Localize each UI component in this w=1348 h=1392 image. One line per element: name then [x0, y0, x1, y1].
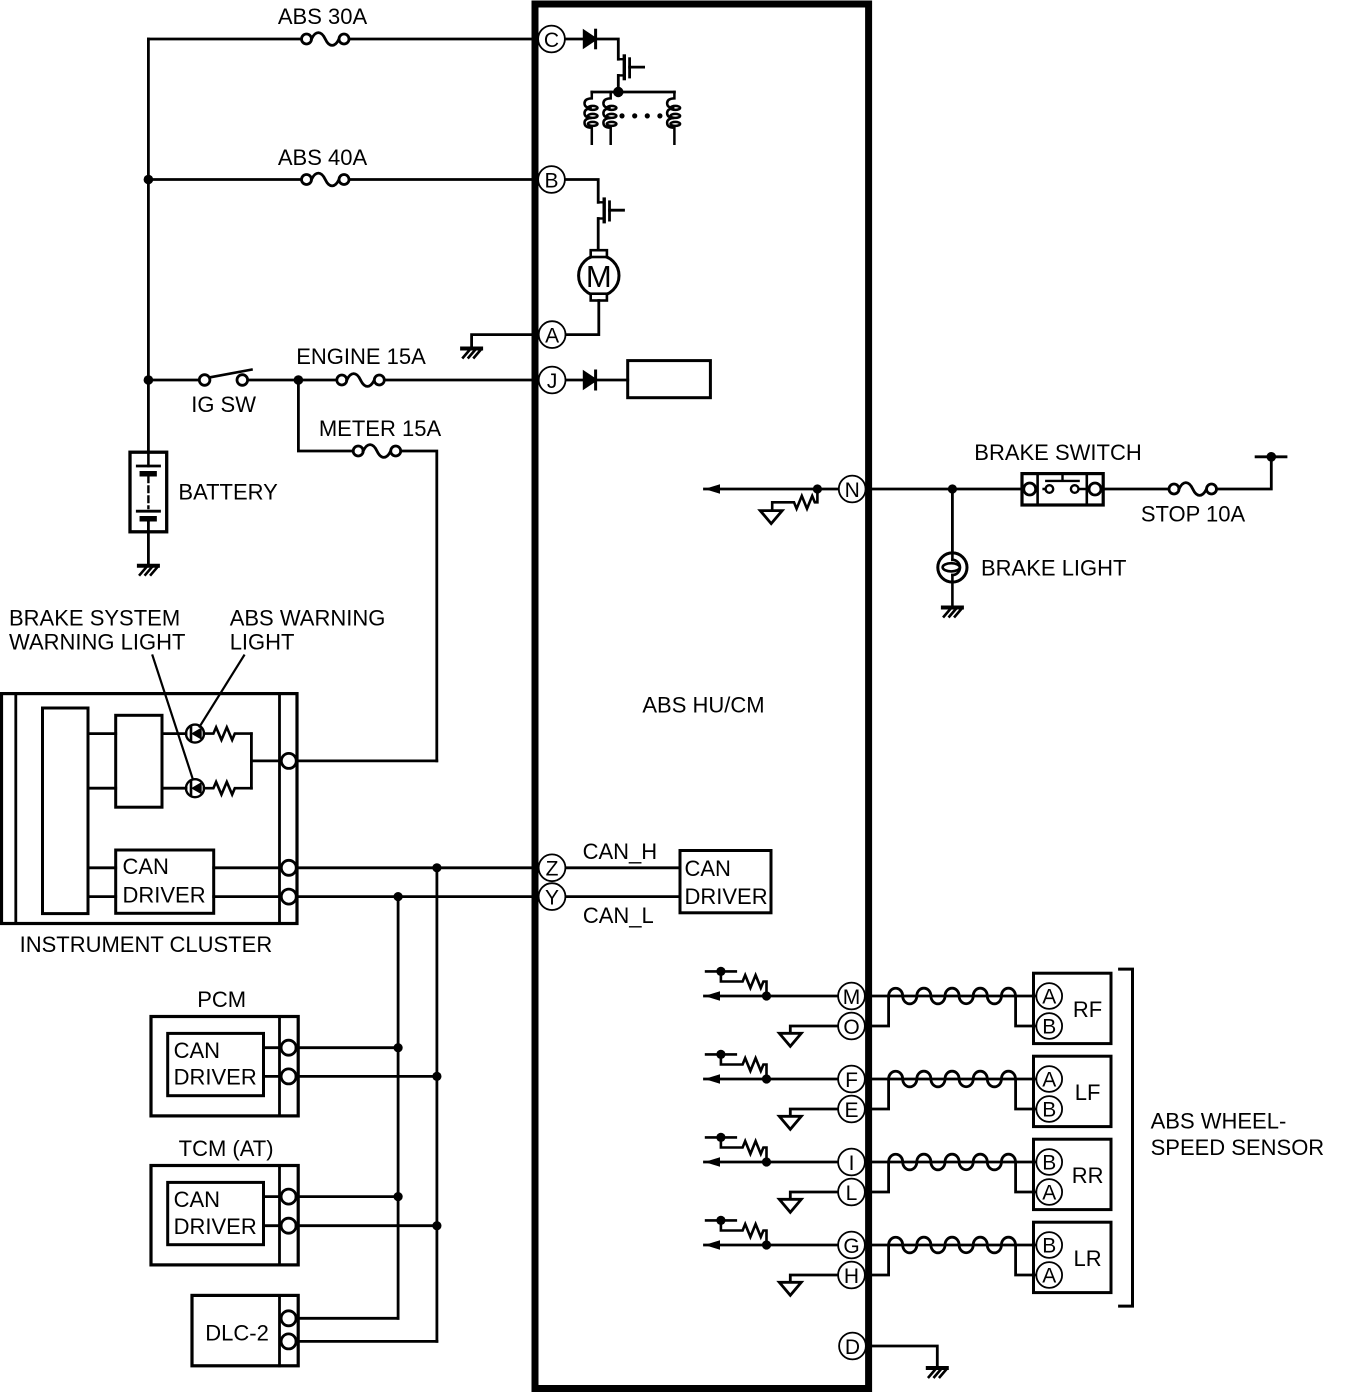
- terminal O: [838, 1013, 865, 1040]
- wire N to brake switch: [866, 488, 1024, 491]
- fuse ABS 40A: [302, 173, 350, 186]
- svg-text:BRAKE SWITCH: BRAKE SWITCH: [974, 440, 1141, 465]
- twisted pair loops F/E: [889, 1071, 1016, 1087]
- wire N row: [705, 488, 840, 491]
- fuse ENGINE 15A: [337, 374, 385, 387]
- wire lamp driver to LEDs: [162, 734, 186, 789]
- node junction pull-up M: [762, 991, 771, 1000]
- terminal N: [839, 476, 866, 503]
- module DLC-2: [192, 1295, 298, 1365]
- svg-text:Z: Z: [546, 858, 559, 881]
- regulator box (unlabeled): [628, 361, 711, 398]
- wire B to pump FET: [565, 180, 598, 203]
- wire sensor signal row I: [705, 1161, 838, 1164]
- pin A of LF: [1036, 1066, 1062, 1092]
- arrow signal continuation (G): [705, 1240, 721, 1249]
- node junction PCM CAN_H: [432, 1072, 441, 1081]
- connector pins PCM: [281, 1040, 296, 1055]
- inductor solenoid coil 3: [667, 92, 680, 144]
- svg-text:B: B: [1042, 1099, 1056, 1122]
- cluster lamp driver block: [116, 715, 162, 807]
- wire CAN_L bus vertical: [397, 897, 400, 1319]
- pin B of RF: [1036, 1013, 1062, 1039]
- svg-text:B: B: [544, 169, 558, 192]
- node junction brake light tap: [948, 484, 957, 493]
- switch IG SW: [199, 370, 251, 386]
- diode (C feed): [584, 30, 595, 48]
- wire brake switch to fuse: [1103, 488, 1169, 491]
- brake switch BRAKE SWITCH: [1022, 474, 1103, 505]
- wire sensor return row H: [790, 1275, 837, 1282]
- svg-text:CAN_L: CAN_L: [583, 903, 654, 928]
- terminal M: [838, 983, 865, 1010]
- connector pins TCM: [281, 1189, 296, 1204]
- wire Z to CAN driver: [566, 866, 681, 869]
- node junction PCM CAN_L: [394, 1043, 403, 1052]
- ellipsis dots (more solenoids): [619, 113, 662, 118]
- svg-text:A: A: [1042, 1182, 1056, 1205]
- svg-text:DLC-2: DLC-2: [205, 1320, 269, 1345]
- PCM CAN DRIVER block: [168, 1033, 264, 1095]
- wire TCM to CAN bus: [296, 1197, 437, 1226]
- wire J to diode: [566, 379, 582, 382]
- arrow signal continuation (N): [705, 484, 721, 493]
- svg-text:ENGINE 15A: ENGINE 15A: [296, 344, 426, 369]
- twisted pair loops I/L: [889, 1154, 1016, 1170]
- fuse STOP 10A: [1169, 483, 1217, 496]
- sensor box LR: [1034, 1222, 1112, 1292]
- node junction CAN_H bus: [432, 863, 441, 872]
- terminal B: [538, 166, 565, 193]
- resistor pull-up I: [706, 1137, 766, 1162]
- arrow signal continuation (F): [705, 1074, 721, 1083]
- terminal E: [838, 1096, 865, 1123]
- wire ABS 30A row: [148, 38, 538, 41]
- svg-text:A: A: [1042, 986, 1056, 1009]
- wire IG SW row: [148, 379, 538, 382]
- ground (floating triangle) H: [779, 1282, 801, 1295]
- ground (floating triangle) L: [779, 1199, 801, 1212]
- wire stop fuse to B+ stub: [1217, 457, 1272, 489]
- wire CAN_H bus vertical: [435, 868, 438, 1342]
- ABS HU/CM control module box: [535, 4, 869, 1389]
- lamp brake system warning LED: [186, 779, 204, 797]
- svg-text:G: G: [843, 1235, 859, 1258]
- svg-text:B: B: [1042, 1235, 1056, 1258]
- wire D ground lead: [866, 1346, 937, 1366]
- sensor box LF: [1034, 1056, 1112, 1126]
- svg-text:LF: LF: [1075, 1080, 1101, 1105]
- node solenoid common junction: [613, 87, 623, 97]
- svg-text:C: C: [544, 29, 559, 52]
- svg-text:ABS WHEEL-: ABS WHEEL-: [1151, 1108, 1287, 1133]
- ground (floating triangle) at N: [760, 511, 782, 524]
- terminal I: [838, 1149, 865, 1176]
- pin B of LF: [1036, 1096, 1062, 1122]
- node junction ABS40A tap: [144, 175, 154, 185]
- svg-text:RF: RF: [1073, 997, 1102, 1022]
- svg-text:CAN: CAN: [174, 1038, 220, 1063]
- svg-text:ABS WARNING: ABS WARNING: [230, 605, 386, 630]
- wire CAN_L (Y): [296, 895, 538, 898]
- terminal Z: [539, 854, 566, 881]
- wire twisted pair return H: [865, 1245, 1037, 1275]
- wire ABS 40A row: [148, 178, 538, 181]
- svg-text:A: A: [1042, 1265, 1056, 1288]
- wire warning light feed: [251, 734, 281, 789]
- node junction TCM CAN_H: [432, 1221, 441, 1230]
- connector pin warning light feed: [281, 753, 296, 768]
- node junction METER branch: [294, 375, 304, 385]
- transistor pump-motor FET (B): [598, 199, 623, 250]
- svg-text:PCM: PCM: [197, 987, 246, 1012]
- terminal D: [839, 1333, 866, 1360]
- svg-text:BATTERY: BATTERY: [178, 480, 278, 505]
- twisted pair loops M/O: [889, 988, 1016, 1004]
- svg-text:B: B: [1042, 1152, 1056, 1175]
- wire PCM CAN driver pins: [264, 1048, 282, 1077]
- node supply stub G: [716, 1216, 725, 1225]
- wire diode to regulator box: [596, 379, 628, 382]
- svg-text:METER 15A: METER 15A: [319, 416, 442, 441]
- svg-text:M: M: [843, 986, 861, 1009]
- wire logic to CAN driver: [88, 868, 116, 897]
- terminal Y: [539, 883, 566, 910]
- pin A of RR: [1036, 1179, 1062, 1205]
- inductor solenoid coil 2: [603, 92, 616, 144]
- pin A of LR: [1036, 1262, 1062, 1288]
- svg-text:D: D: [845, 1336, 860, 1359]
- wire twisted pair return O: [865, 996, 1037, 1026]
- svg-text:WARNING LIGHT: WARNING LIGHT: [9, 630, 185, 655]
- fuse ABS 30A: [302, 33, 350, 46]
- terminal H: [838, 1262, 865, 1289]
- svg-text:H: H: [844, 1265, 859, 1288]
- battery BATTERY: [130, 452, 167, 563]
- wire motor to A: [566, 301, 599, 335]
- svg-text:CAN: CAN: [174, 1187, 220, 1212]
- wire twisted pair straight F: [865, 1078, 1037, 1081]
- resistor pull-up M: [706, 971, 766, 996]
- ground (floating triangle) O: [779, 1033, 801, 1046]
- svg-text:L: L: [846, 1182, 858, 1205]
- wire diode to FET: [596, 39, 619, 59]
- svg-text:B: B: [1042, 1016, 1056, 1039]
- connector pins DLC-2: [281, 1311, 296, 1326]
- lamp BRAKE LIGHT: [938, 553, 967, 606]
- svg-text:A: A: [545, 325, 559, 348]
- node junction pull-up F: [762, 1074, 771, 1083]
- wire battery positive rail: [147, 39, 150, 452]
- node supply stub M: [716, 967, 725, 976]
- svg-text:LIGHT: LIGHT: [230, 630, 295, 655]
- wire twisted pair straight M: [865, 995, 1037, 998]
- ground (floating triangle) E: [779, 1116, 801, 1129]
- ground at terminal A: [462, 349, 481, 358]
- ground at terminal D: [928, 1368, 947, 1377]
- fuse METER 15A: [353, 445, 401, 458]
- resistor N pulldown: [772, 489, 817, 511]
- instrument cluster box: [2, 694, 298, 924]
- bracket ABS wheel-speed sensor: [1120, 969, 1133, 1306]
- svg-text:BRAKE LIGHT: BRAKE LIGHT: [981, 555, 1126, 580]
- svg-text:J: J: [547, 370, 558, 393]
- resistor for ABS warning LED: [204, 727, 251, 740]
- wire twisted pair straight G: [865, 1244, 1037, 1247]
- lamp ABS warning LED: [186, 725, 204, 743]
- leader line ABS warning light: [200, 656, 244, 727]
- terminal C: [538, 26, 565, 53]
- svg-text:INSTRUMENT CLUSTER: INSTRUMENT CLUSTER: [20, 932, 273, 957]
- svg-text:LR: LR: [1074, 1246, 1102, 1271]
- ground brake light: [943, 608, 962, 617]
- diode (J ignition feed): [584, 371, 595, 389]
- transistor solenoid-driver FET (C): [618, 56, 643, 92]
- svg-text:DRIVER: DRIVER: [174, 1065, 257, 1090]
- wire sensor signal row G: [705, 1244, 838, 1247]
- svg-text:CAN: CAN: [123, 854, 169, 879]
- terminal F: [838, 1066, 865, 1093]
- node junction pull-up G: [762, 1240, 771, 1249]
- connector pin cluster CAN_H: [281, 860, 296, 875]
- svg-text:I: I: [849, 1152, 855, 1175]
- svg-text:DRIVER: DRIVER: [123, 882, 206, 907]
- wire sensor return row O: [790, 1026, 837, 1033]
- resistor pull-up F: [706, 1054, 766, 1079]
- wire TCM CAN driver pins: [264, 1197, 282, 1226]
- wire sensor signal row F: [705, 1078, 838, 1081]
- terminal A: [539, 321, 566, 348]
- svg-text:CAN_H: CAN_H: [583, 839, 658, 864]
- wire solenoid common rail: [592, 91, 675, 94]
- svg-text:DRIVER: DRIVER: [685, 884, 768, 909]
- svg-text:CAN: CAN: [685, 856, 731, 881]
- svg-text:IG SW: IG SW: [191, 392, 256, 417]
- node supply stub F: [716, 1050, 725, 1059]
- wire PCM to CAN bus: [296, 1048, 437, 1077]
- wire sensor return row E: [790, 1109, 837, 1116]
- arrow signal continuation (I): [705, 1157, 721, 1166]
- terminal G: [838, 1232, 865, 1259]
- svg-text:Y: Y: [545, 887, 559, 910]
- pin A of RF: [1036, 983, 1062, 1009]
- twisted pair loops G/H: [889, 1237, 1016, 1253]
- cluster CAN DRIVER block: [116, 850, 214, 913]
- sensor box RR: [1034, 1139, 1112, 1209]
- wire brake light drop: [951, 489, 954, 553]
- wire Y to CAN driver: [566, 895, 681, 898]
- wire sensor return row L: [790, 1192, 837, 1199]
- wire twisted pair straight I: [865, 1161, 1037, 1164]
- svg-text:F: F: [845, 1069, 858, 1092]
- wire DLC-2 to CAN bus: [296, 1318, 437, 1341]
- terminal J: [539, 367, 566, 394]
- svg-text:STOP 10A: STOP 10A: [1141, 502, 1246, 527]
- svg-text:E: E: [844, 1099, 858, 1122]
- inductor solenoid coil 1: [585, 92, 598, 144]
- svg-text:ABS HU/CM: ABS HU/CM: [642, 693, 764, 718]
- node junction TCM CAN_L: [394, 1192, 403, 1201]
- wire sensor signal row M: [705, 995, 838, 998]
- arrow signal continuation (M): [705, 991, 721, 1000]
- wire CAN_H (Z): [296, 866, 538, 869]
- ABS CAN DRIVER block: [680, 851, 771, 913]
- svg-text:N: N: [845, 479, 860, 502]
- leader line brake system warning light: [153, 656, 193, 778]
- node B+ rail stub: [1256, 452, 1286, 462]
- svg-text:SPEED SENSOR: SPEED SENSOR: [1151, 1135, 1325, 1160]
- node junction IG SW tap: [144, 375, 154, 385]
- svg-text:BRAKE SYSTEM: BRAKE SYSTEM: [9, 605, 180, 630]
- TCM CAN DRIVER block: [168, 1182, 264, 1244]
- resistor pull-up G: [706, 1220, 766, 1245]
- sensor box RF: [1034, 973, 1112, 1043]
- terminal L: [838, 1179, 865, 1206]
- resistor for brake system warning LED: [204, 782, 251, 795]
- wire C to diode: [565, 38, 582, 41]
- svg-text:M: M: [586, 259, 612, 294]
- svg-text:TCM (AT): TCM (AT): [179, 1136, 274, 1161]
- wire twisted pair return L: [865, 1162, 1037, 1192]
- connector pin cluster CAN_L: [281, 889, 296, 904]
- node junction CAN_L bus: [394, 892, 403, 901]
- motor M (ABS pump): [579, 250, 619, 300]
- svg-text:ABS 40A: ABS 40A: [278, 145, 368, 170]
- node junction N pulldown: [813, 484, 822, 493]
- svg-text:A: A: [1042, 1069, 1056, 1092]
- wire terminal A ground lead: [472, 335, 539, 347]
- svg-text:RR: RR: [1072, 1163, 1104, 1188]
- wire twisted pair return E: [865, 1079, 1037, 1109]
- wire CAN driver to connector pins: [214, 868, 282, 897]
- node junction pull-up I: [762, 1157, 771, 1166]
- pin B of RR: [1036, 1149, 1062, 1175]
- svg-text:DRIVER: DRIVER: [174, 1214, 257, 1239]
- wire cluster to METER fuse riser: [296, 760, 437, 763]
- svg-text:O: O: [843, 1016, 859, 1039]
- wire METER 15A branch: [298, 380, 436, 761]
- ground battery: [139, 566, 158, 575]
- svg-text:ABS 30A: ABS 30A: [278, 4, 368, 29]
- wire logic to lamp driver: [88, 734, 116, 789]
- node supply stub I: [716, 1133, 725, 1142]
- cluster internal logic block: [43, 708, 89, 914]
- pin B of LR: [1036, 1232, 1062, 1258]
